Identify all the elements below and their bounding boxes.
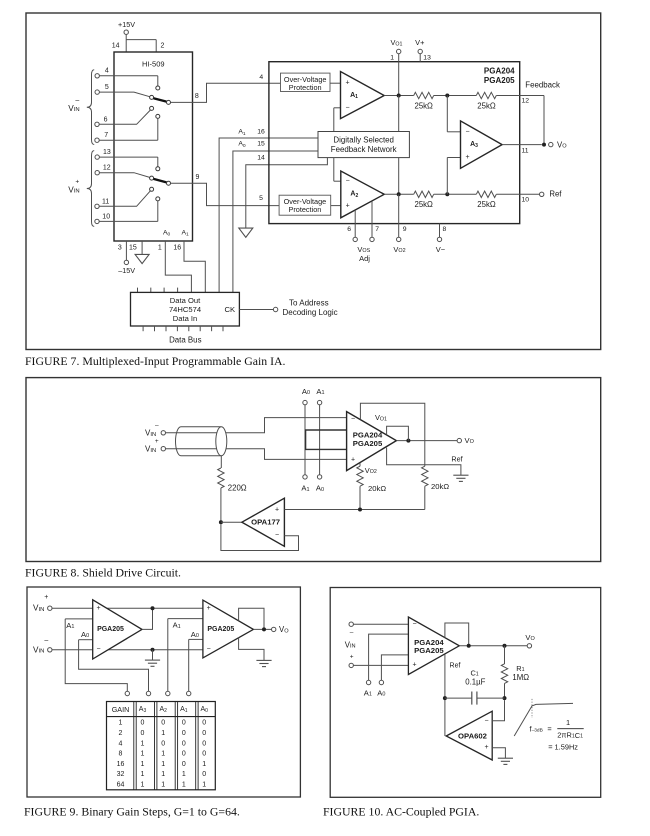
svg-text:PGA204: PGA204	[484, 66, 515, 75]
svg-text:7: 7	[375, 226, 379, 233]
svg-text:25kΩ: 25kΩ	[477, 102, 496, 111]
svg-text:0: 0	[141, 720, 145, 727]
svg-text:13: 13	[103, 149, 111, 156]
svg-text:+: +	[351, 456, 355, 463]
svg-text:PGA205: PGA205	[353, 439, 383, 448]
svg-text:7: 7	[104, 132, 108, 139]
svg-text:10: 10	[522, 196, 530, 203]
svg-text:14: 14	[112, 43, 120, 50]
svg-text:0: 0	[182, 720, 186, 727]
svg-text:0: 0	[202, 751, 206, 758]
svg-text:11: 11	[102, 198, 109, 205]
svg-text:25kΩ: 25kΩ	[477, 200, 496, 209]
svg-text:0: 0	[202, 740, 206, 747]
svg-text:1: 1	[141, 761, 145, 768]
svg-text:PGA205: PGA205	[97, 626, 124, 633]
svg-text:FIGURE 7. Multiplexed-Input Pr: FIGURE 7. Multiplexed-Input Programmable…	[25, 354, 286, 368]
svg-text:1: 1	[202, 761, 206, 768]
svg-text:0: 0	[182, 751, 186, 758]
svg-text:8: 8	[119, 751, 123, 758]
svg-text:Decoding Logic: Decoding Logic	[283, 308, 338, 317]
svg-text:9: 9	[196, 174, 200, 181]
svg-text:12: 12	[522, 97, 530, 104]
svg-text:12: 12	[103, 165, 111, 172]
svg-text:1: 1	[161, 782, 165, 789]
svg-text:+15V: +15V	[118, 20, 135, 29]
svg-text:PGA205: PGA205	[414, 646, 444, 655]
svg-text:−: −	[412, 621, 416, 628]
svg-text:+: +	[96, 605, 100, 612]
svg-text:16: 16	[257, 129, 265, 136]
svg-text:74HC574: 74HC574	[169, 305, 201, 314]
svg-text:−: −	[275, 532, 279, 539]
svg-text:2: 2	[161, 43, 165, 50]
svg-text:–: –	[350, 629, 354, 636]
svg-text:PGA205: PGA205	[484, 76, 515, 85]
svg-text:+: +	[484, 744, 488, 751]
svg-text:25kΩ: 25kΩ	[414, 200, 433, 209]
svg-text:=: =	[547, 725, 551, 734]
svg-text:FIGURE 10. AC-Coupled PGIA.: FIGURE 10. AC-Coupled PGIA.	[323, 804, 479, 818]
svg-text:1: 1	[158, 244, 162, 251]
svg-text:0: 0	[161, 740, 165, 747]
svg-text:FIGURE 8. Shield Drive Circuit: FIGURE 8. Shield Drive Circuit.	[25, 566, 181, 580]
svg-text:OPA177: OPA177	[251, 518, 280, 527]
svg-text:0: 0	[182, 730, 186, 737]
svg-text:14: 14	[257, 155, 265, 162]
svg-text:1: 1	[161, 751, 165, 758]
svg-text:V−: V−	[436, 245, 446, 254]
svg-text:2: 2	[119, 730, 123, 737]
svg-text:PGA205: PGA205	[207, 626, 234, 633]
svg-text:Feedback Network: Feedback Network	[331, 145, 397, 154]
svg-text:+: +	[345, 80, 349, 87]
svg-text:8: 8	[195, 93, 199, 100]
svg-text:5: 5	[259, 195, 263, 202]
svg-text:1: 1	[390, 54, 394, 61]
svg-text:−: −	[465, 128, 469, 135]
svg-text:+: +	[44, 594, 48, 601]
svg-text:−: −	[345, 104, 349, 111]
svg-text:0.1µF: 0.1µF	[465, 677, 485, 686]
svg-text:20kΩ: 20kΩ	[368, 484, 386, 493]
svg-text:1: 1	[202, 782, 206, 789]
svg-text:HI-509: HI-509	[142, 60, 165, 69]
svg-text:0: 0	[202, 730, 206, 737]
svg-text:1: 1	[161, 771, 165, 778]
svg-text:+: +	[350, 654, 354, 661]
svg-text:9: 9	[403, 226, 407, 233]
svg-text:+: +	[346, 203, 350, 210]
svg-text:CK: CK	[225, 305, 236, 314]
svg-text:1: 1	[119, 720, 123, 727]
svg-text:11: 11	[522, 147, 529, 154]
svg-text:0: 0	[161, 720, 165, 727]
svg-text:−: −	[346, 178, 350, 185]
svg-text:0: 0	[202, 720, 206, 727]
svg-text:+: +	[275, 506, 279, 513]
svg-text:Protection: Protection	[289, 83, 322, 92]
svg-text:−: −	[207, 646, 211, 653]
svg-text:0: 0	[202, 771, 206, 778]
svg-text:1: 1	[161, 761, 165, 768]
svg-text:OPA602: OPA602	[458, 732, 487, 741]
svg-text:Feedback: Feedback	[525, 80, 560, 89]
svg-text:3: 3	[118, 244, 122, 251]
svg-text:+: +	[207, 605, 211, 612]
svg-text:= 1.59Hz: = 1.59Hz	[548, 743, 578, 752]
svg-text:V+: V+	[415, 38, 424, 47]
svg-text:1: 1	[161, 730, 165, 737]
svg-text:32: 32	[117, 771, 125, 778]
svg-text:1: 1	[141, 782, 145, 789]
svg-text:+: +	[155, 438, 159, 445]
svg-text:Ref: Ref	[451, 455, 462, 464]
svg-text:1: 1	[141, 751, 145, 758]
svg-text:–15V: –15V	[118, 266, 135, 275]
svg-text:1: 1	[182, 771, 186, 778]
svg-text:Data In: Data In	[173, 314, 197, 323]
svg-text:0: 0	[182, 761, 186, 768]
svg-text:GAIN: GAIN	[112, 705, 130, 714]
svg-text:Ref: Ref	[450, 663, 461, 670]
svg-text:Protection: Protection	[288, 205, 321, 214]
svg-text:220Ω: 220Ω	[228, 484, 247, 493]
svg-text:–: –	[44, 637, 48, 644]
svg-text:15: 15	[129, 244, 137, 251]
svg-text:−: −	[351, 415, 355, 422]
svg-text:1: 1	[182, 782, 186, 789]
svg-text:Digitally Selected: Digitally Selected	[333, 135, 394, 144]
svg-text:25kΩ: 25kΩ	[414, 102, 433, 111]
svg-text:Adj: Adj	[359, 254, 370, 263]
svg-text:1: 1	[141, 740, 145, 747]
svg-text:0: 0	[141, 730, 145, 737]
svg-text:13: 13	[423, 54, 431, 61]
svg-text:1: 1	[141, 771, 145, 778]
svg-text:Ref: Ref	[549, 189, 562, 198]
svg-text:15: 15	[257, 141, 265, 148]
svg-text:1MΩ: 1MΩ	[512, 673, 529, 682]
svg-text:−: −	[484, 717, 488, 724]
svg-text:+: +	[465, 154, 469, 161]
svg-text:5: 5	[105, 84, 109, 91]
svg-text:FIGURE 9. Binary Gain Steps, G: FIGURE 9. Binary Gain Steps, G=1 to G=64…	[24, 804, 240, 818]
svg-text:16: 16	[173, 244, 181, 251]
svg-text:4: 4	[259, 74, 263, 81]
svg-text:20kΩ: 20kΩ	[431, 482, 449, 491]
svg-text:4: 4	[105, 68, 109, 75]
svg-text:16: 16	[117, 761, 125, 768]
svg-text:To Address: To Address	[289, 298, 329, 307]
svg-text:–: –	[75, 97, 79, 104]
svg-text:−: −	[96, 646, 100, 653]
svg-text:–: –	[155, 422, 159, 429]
svg-text:+: +	[412, 662, 416, 669]
svg-text:Data Bus: Data Bus	[169, 336, 202, 345]
svg-text:4: 4	[119, 740, 123, 747]
svg-text:2πR1C1: 2πR1C1	[557, 730, 583, 739]
svg-text:6: 6	[347, 226, 351, 233]
svg-text:64: 64	[117, 782, 125, 789]
svg-text:6: 6	[104, 116, 108, 123]
svg-text:0: 0	[182, 740, 186, 747]
svg-text:Data Out: Data Out	[170, 296, 201, 305]
svg-text:10: 10	[102, 213, 110, 220]
svg-text:1: 1	[566, 718, 570, 727]
svg-text:+: +	[75, 179, 79, 186]
svg-text:8: 8	[443, 226, 447, 233]
